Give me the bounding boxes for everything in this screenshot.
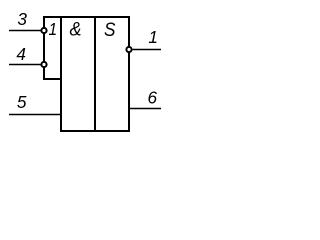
logic element main box: [61, 17, 129, 131]
svg-text:5: 5: [17, 92, 27, 112]
svg-text:1: 1: [48, 20, 57, 39]
inversion circle input 3: [41, 28, 46, 33]
wire output 6: [130, 108, 161, 110]
wire output 1: [133, 49, 161, 51]
inverter sub-block (label 1): top, left and bottom edges: [44, 17, 61, 79]
svg-text:4: 4: [16, 44, 26, 64]
svg-text:&: &: [69, 18, 81, 40]
section divider between & and S: [94, 16, 96, 131]
svg-text:1: 1: [148, 27, 158, 47]
wire input 4: [9, 64, 41, 66]
svg-text:S: S: [104, 18, 116, 40]
inversion circle input 4: [41, 62, 46, 67]
svg-text:3: 3: [17, 9, 27, 29]
wire input 3: [9, 30, 41, 32]
svg-text:6: 6: [148, 87, 158, 107]
inversion circle output 1: [126, 47, 131, 52]
wire input 5: [9, 114, 60, 116]
